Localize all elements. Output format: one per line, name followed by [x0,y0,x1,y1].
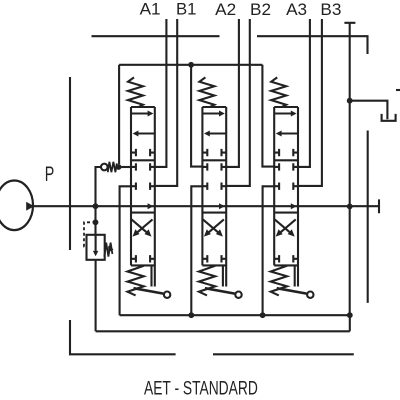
svg-text:AET - STANDARD: AET - STANDARD [144,378,258,400]
svg-text:A2: A2 [215,0,236,19]
svg-text:B2: B2 [250,0,271,19]
svg-text:P: P [45,163,55,186]
svg-text:A3: A3 [286,0,307,19]
svg-text:A1: A1 [140,0,161,19]
svg-text:B1: B1 [176,0,197,19]
svg-text:B3: B3 [320,0,341,19]
